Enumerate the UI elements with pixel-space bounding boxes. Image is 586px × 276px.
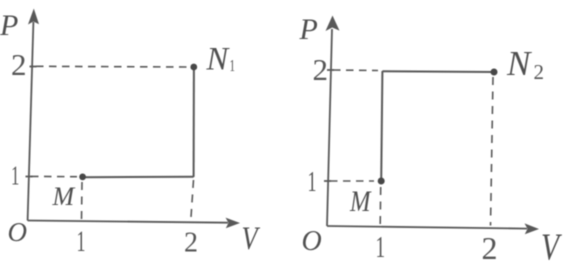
left P axis (y-axis) — [28, 22, 34, 221]
right tick P=2 — [327, 69, 334, 71]
left V axis (x-axis) — [28, 221, 228, 223]
left tick P=2 — [30, 66, 37, 68]
left point N1 — [190, 64, 197, 71]
svg-text:V: V — [541, 227, 563, 268]
right V axis (x-axis) — [327, 226, 527, 229]
right isochor M to corner — [381, 71, 382, 181]
svg-text:M: M — [349, 185, 372, 218]
svg-text:2: 2 — [534, 60, 545, 84]
svg-text:2: 2 — [11, 47, 27, 82]
left tick P=1 — [26, 176, 33, 178]
left isochor corner to N1 — [193, 67, 195, 177]
left y-axis arrowhead — [28, 9, 39, 25]
svg-text:M: M — [52, 182, 76, 211]
svg-text:1: 1 — [308, 167, 317, 198]
right dashed line P=1 to M — [330, 180, 374, 182]
left point M — [79, 174, 86, 181]
left dashed line V=2 below corner — [191, 180, 194, 220]
right P axis (y-axis) — [327, 29, 332, 226]
right isobar corner to N2 — [382, 70, 494, 73]
svg-text:N: N — [206, 41, 231, 77]
right tick P=1 — [324, 180, 331, 182]
left dashed line P=1 to M — [31, 175, 77, 177]
svg-text:1: 1 — [230, 57, 236, 76]
svg-text:O: O — [302, 226, 322, 257]
svg-text:2: 2 — [313, 52, 329, 87]
svg-text:V: V — [242, 220, 261, 256]
right point M — [378, 178, 385, 185]
right dashed line V=2 below N2 — [491, 77, 494, 226]
left dashed line V=1 below M — [81, 182, 84, 220]
svg-text:1: 1 — [376, 229, 386, 264]
svg-text:O: O — [8, 217, 28, 247]
right dashed line V=1 below M — [379, 187, 382, 225]
svg-text:1: 1 — [11, 160, 19, 190]
svg-text:2: 2 — [482, 230, 498, 266]
right y-axis arrowhead — [326, 16, 340, 32]
svg-text:N: N — [506, 44, 532, 83]
svg-text:P: P — [0, 9, 18, 42]
left dashed line P=2 to N1 — [36, 65, 188, 68]
svg-text:2: 2 — [184, 228, 198, 259]
right point N2 — [491, 69, 498, 76]
svg-text:1: 1 — [77, 226, 86, 259]
right dashed line P=2 to jump corner — [333, 69, 378, 72]
left isobar M to corner — [83, 176, 194, 178]
right x-axis arrowhead — [525, 223, 540, 234]
left x-axis arrowhead — [226, 218, 241, 229]
svg-text:P: P — [299, 13, 318, 46]
